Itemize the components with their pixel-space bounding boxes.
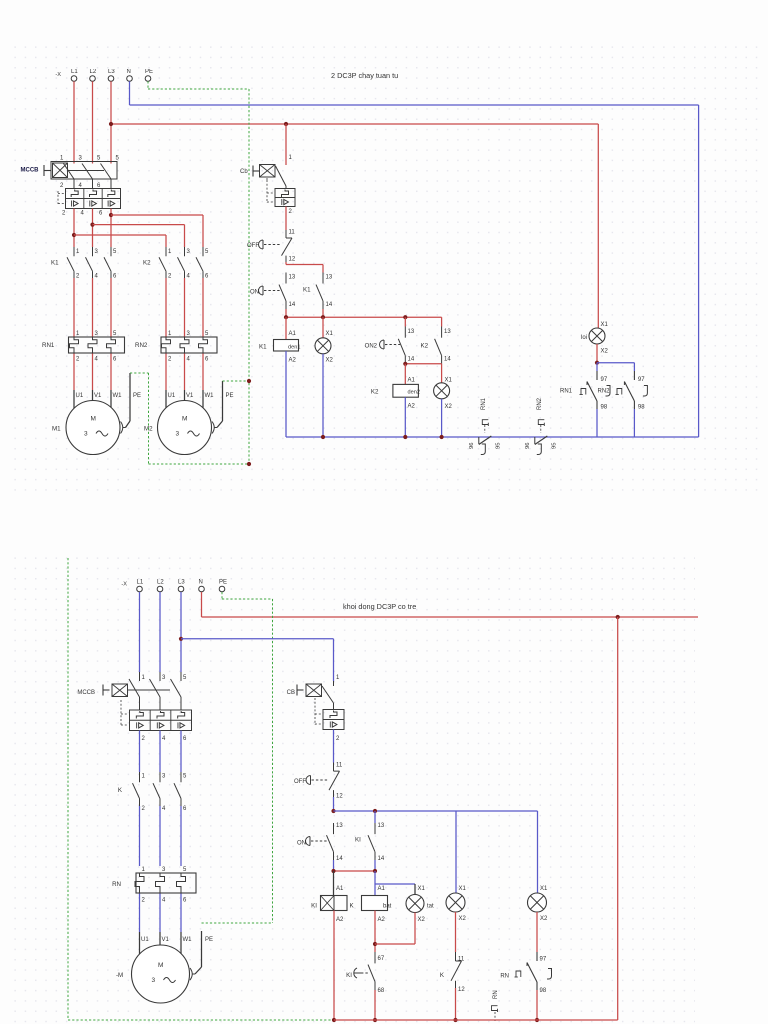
svg-text:A2: A2 [289,358,297,364]
svg-text:13: 13 [378,823,385,829]
svg-text:4: 4 [95,357,99,363]
svg-text:3: 3 [162,867,166,873]
svg-text:1: 1 [142,675,146,681]
svg-text:2 DC3P chay tuan tu: 2 DC3P chay tuan tu [331,71,398,80]
svg-text:K2: K2 [143,260,151,267]
svg-text:M: M [158,962,163,969]
svg-text:U1: U1 [141,937,149,943]
svg-text:X2: X2 [540,916,548,922]
svg-text:ON: ON [297,841,306,847]
svg-text:1: 1 [142,867,146,873]
svg-text:L1: L1 [137,580,144,586]
svg-text:68: 68 [378,988,385,994]
svg-text:A2: A2 [336,917,344,923]
svg-text:W1: W1 [205,393,215,399]
svg-text:13: 13 [408,329,415,335]
svg-text:5: 5 [205,249,209,255]
svg-text:5: 5 [183,675,187,681]
svg-text:N: N [127,69,131,75]
svg-text:3: 3 [176,431,180,438]
svg-text:PE: PE [145,69,153,75]
svg-text:K1: K1 [51,260,59,267]
svg-text:12: 12 [458,987,465,993]
svg-text:RN1: RN1 [560,389,573,395]
svg-text:13: 13 [444,329,451,335]
svg-text:-M: -M [116,972,123,979]
svg-text:X2: X2 [459,916,467,922]
svg-text:M: M [91,416,96,423]
svg-text:RN: RN [500,974,509,980]
svg-text:L2: L2 [90,69,97,75]
svg-text:K: K [440,972,445,979]
svg-text:X2: X2 [418,917,426,923]
svg-text:X1: X1 [445,378,453,384]
svg-text:2: 2 [76,274,80,280]
svg-text:RN2: RN2 [135,342,148,349]
svg-text:1: 1 [168,249,172,255]
svg-text:14: 14 [408,357,415,363]
svg-text:1: 1 [336,675,340,681]
svg-text:X1: X1 [326,331,334,337]
svg-text:67: 67 [378,956,385,962]
svg-text:14: 14 [444,357,451,363]
svg-text:KI: KI [346,972,352,979]
svg-text:X2: X2 [601,349,609,355]
svg-text:U1: U1 [168,393,176,399]
svg-text:X1: X1 [540,886,548,892]
svg-text:RN1: RN1 [42,342,55,349]
svg-text:97: 97 [638,377,645,383]
svg-text:14: 14 [336,856,343,862]
svg-text:4: 4 [162,806,166,812]
svg-text:X1: X1 [459,886,467,892]
svg-text:2: 2 [168,274,172,280]
svg-text:N: N [199,580,203,586]
svg-text:97: 97 [601,377,608,383]
svg-text:khoi dong DC3P co tre: khoi dong DC3P co tre [343,602,416,611]
svg-text:2: 2 [142,736,146,742]
svg-text:ON2: ON2 [365,344,378,350]
svg-text:MCCB: MCCB [77,690,95,696]
svg-text:5: 5 [113,249,117,255]
svg-text:12: 12 [289,257,296,263]
svg-text:loi: loi [581,335,587,341]
svg-text:96: 96 [469,443,475,449]
svg-text:OFF: OFF [247,243,259,249]
svg-text:PE: PE [226,393,234,399]
svg-text:L1: L1 [71,69,78,75]
svg-text:K1: K1 [303,287,311,294]
svg-text:3: 3 [95,249,99,255]
svg-text:A1: A1 [289,331,297,337]
svg-text:L3: L3 [178,580,185,586]
svg-text:PE: PE [133,393,141,399]
svg-text:6: 6 [183,898,187,904]
svg-text:96: 96 [525,443,531,449]
svg-text:1: 1 [76,331,80,337]
svg-text:5: 5 [183,867,187,873]
svg-text:K2: K2 [421,343,429,350]
svg-text:W1: W1 [183,937,193,943]
svg-text:2: 2 [168,357,172,363]
svg-text:KI: KI [311,903,317,910]
svg-text:98: 98 [638,405,645,411]
svg-text:A1: A1 [408,378,416,384]
svg-text:M1: M1 [52,426,61,433]
svg-text:5: 5 [113,331,117,337]
svg-text:13: 13 [336,823,343,829]
svg-text:6: 6 [205,274,209,280]
svg-text:U1: U1 [76,393,84,399]
svg-text:PE: PE [219,580,227,586]
svg-text:95: 95 [551,443,557,449]
svg-text:K1: K1 [259,344,267,351]
svg-text:X1: X1 [601,322,609,328]
svg-text:MCCB: MCCB [21,168,40,174]
svg-text:2: 2 [289,209,293,215]
svg-text:97: 97 [540,957,547,963]
svg-text:11: 11 [289,230,296,236]
svg-text:PE: PE [205,937,213,943]
svg-text:W1: W1 [113,393,123,399]
svg-text:A2: A2 [378,917,386,923]
svg-text:RN1: RN1 [481,397,487,410]
svg-text:4: 4 [81,211,85,217]
svg-text:6: 6 [113,357,117,363]
svg-text:OFF: OFF [294,779,306,785]
svg-text:6: 6 [113,274,117,280]
svg-text:5: 5 [183,774,187,780]
svg-text:6: 6 [183,736,187,742]
svg-text:V1: V1 [162,937,170,943]
svg-text:1: 1 [60,156,64,162]
svg-text:4: 4 [162,736,166,742]
svg-text:ON: ON [250,290,259,296]
svg-text:98: 98 [540,988,547,994]
svg-text:12: 12 [336,794,343,800]
svg-text:CB: CB [287,690,295,696]
svg-text:4: 4 [95,274,99,280]
svg-text:5: 5 [97,156,101,162]
svg-text:2: 2 [142,898,146,904]
svg-text:A1: A1 [336,886,344,892]
svg-text:2: 2 [142,806,146,812]
svg-text:3: 3 [187,249,191,255]
svg-text:1: 1 [168,331,172,337]
svg-text:14: 14 [326,302,333,308]
svg-text:2: 2 [60,183,64,189]
svg-text:X1: X1 [418,886,426,892]
svg-text:2: 2 [76,357,80,363]
svg-text:3: 3 [95,331,99,337]
svg-text:13: 13 [326,275,333,281]
svg-text:4: 4 [162,898,166,904]
svg-text:98: 98 [601,405,608,411]
svg-text:L3: L3 [108,69,115,75]
svg-text:X2: X2 [445,404,453,410]
svg-text:3: 3 [152,977,156,984]
svg-text:3: 3 [84,431,88,438]
svg-text:1: 1 [76,249,80,255]
svg-text:V1: V1 [186,393,194,399]
svg-text:2: 2 [336,736,340,742]
svg-text:6: 6 [99,211,103,217]
svg-text:tat: tat [427,904,434,910]
svg-text:6: 6 [205,357,209,363]
svg-text:14: 14 [378,856,385,862]
svg-text:KI: KI [355,837,361,844]
svg-text:Cb: Cb [240,169,248,175]
svg-text:RN: RN [493,990,499,999]
svg-text:1: 1 [289,155,293,161]
svg-text:2: 2 [62,211,66,217]
svg-text:6: 6 [183,806,187,812]
svg-text:5: 5 [205,331,209,337]
svg-text:1: 1 [142,774,146,780]
svg-text:3: 3 [162,675,166,681]
svg-text:14: 14 [289,302,296,308]
svg-text:M: M [182,416,187,423]
svg-text:95: 95 [495,443,501,449]
svg-text:4: 4 [187,357,191,363]
svg-text:den2: den2 [408,390,420,396]
svg-text:K2: K2 [371,389,379,396]
svg-text:L2: L2 [157,580,164,586]
svg-text:3: 3 [79,156,83,162]
svg-text:K: K [118,787,123,794]
svg-text:X2: X2 [326,358,334,364]
svg-text:11: 11 [336,763,343,769]
svg-text:V1: V1 [94,393,102,399]
svg-text:13: 13 [289,275,296,281]
svg-text:4: 4 [187,274,191,280]
svg-text:RN: RN [112,881,121,888]
svg-text:RN2: RN2 [598,389,611,395]
svg-text:A1: A1 [378,886,386,892]
svg-text:-X: -X [55,72,61,78]
svg-text:5: 5 [116,156,120,162]
svg-text:-X: -X [121,582,127,588]
svg-text:bat: bat [383,904,392,910]
svg-text:den1: den1 [288,345,300,351]
svg-text:K: K [350,903,355,910]
svg-text:A2: A2 [408,404,416,410]
svg-text:RN2: RN2 [537,397,543,410]
svg-text:3: 3 [162,774,166,780]
svg-text:3: 3 [187,331,191,337]
